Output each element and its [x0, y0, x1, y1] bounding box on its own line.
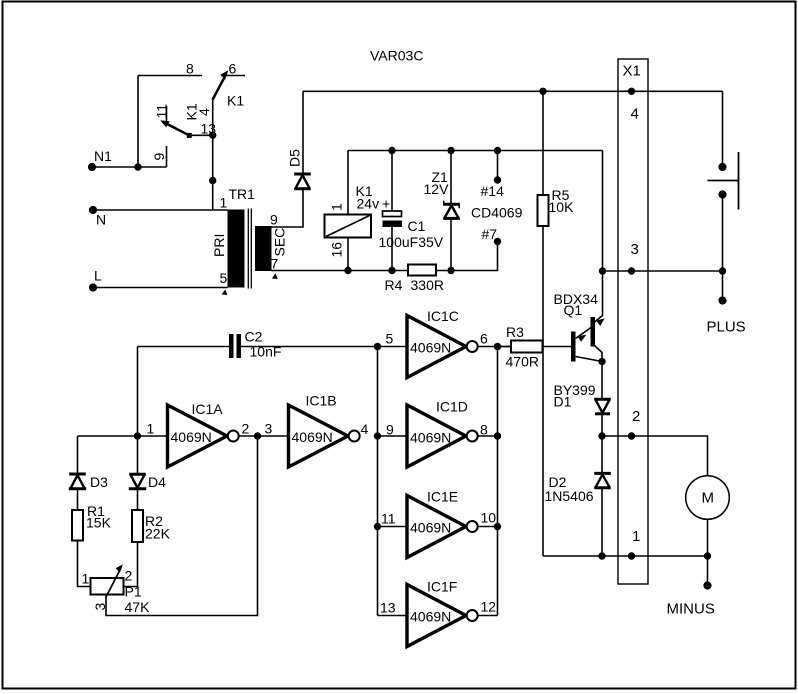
- svg-text:12: 12: [481, 599, 497, 615]
- svg-text:2: 2: [125, 568, 133, 584]
- svg-text:#7: #7: [482, 226, 498, 242]
- svg-text:13: 13: [201, 121, 217, 137]
- svg-text:100uF35V: 100uF35V: [379, 234, 444, 250]
- svg-text:3: 3: [92, 603, 108, 611]
- svg-text:L: L: [94, 268, 102, 284]
- svg-text:PLUS: PLUS: [707, 319, 746, 336]
- svg-text:6: 6: [229, 61, 237, 77]
- svg-text:10K: 10K: [549, 199, 575, 215]
- svg-text:16: 16: [329, 242, 345, 258]
- svg-text:IC1F: IC1F: [427, 579, 457, 595]
- svg-text:N1: N1: [94, 148, 112, 164]
- svg-text:11: 11: [154, 104, 170, 119]
- svg-text:1: 1: [147, 421, 155, 437]
- svg-text:D4: D4: [148, 474, 166, 490]
- svg-text:3: 3: [631, 241, 639, 258]
- svg-text:2: 2: [242, 421, 250, 437]
- svg-text:8: 8: [480, 422, 488, 438]
- svg-text:MINUS: MINUS: [667, 601, 715, 618]
- svg-text:P1: P1: [125, 584, 142, 600]
- svg-text:X1: X1: [623, 63, 641, 80]
- svg-text:12V: 12V: [424, 181, 450, 197]
- svg-text:330R: 330R: [411, 277, 444, 293]
- svg-text:2: 2: [632, 408, 640, 425]
- svg-text:9: 9: [151, 153, 167, 161]
- svg-text:SEC: SEC: [272, 228, 288, 257]
- svg-text:4069N: 4069N: [292, 429, 333, 445]
- svg-text:D5: D5: [287, 149, 303, 167]
- svg-text:5: 5: [220, 270, 228, 286]
- svg-text:24v: 24v: [357, 196, 380, 212]
- svg-text:+: +: [382, 196, 390, 212]
- svg-text:11: 11: [381, 511, 396, 527]
- svg-text:IC1D: IC1D: [436, 399, 468, 415]
- svg-text:M: M: [702, 490, 715, 507]
- svg-text:IC1C: IC1C: [427, 308, 459, 324]
- svg-text:VAR03C: VAR03C: [370, 48, 423, 64]
- svg-text:IC1E: IC1E: [427, 489, 458, 505]
- svg-text:1: 1: [329, 203, 345, 211]
- svg-text:R3: R3: [506, 324, 524, 340]
- svg-text:D1: D1: [554, 394, 572, 410]
- svg-text:TR1: TR1: [229, 186, 256, 202]
- svg-text:IC1B: IC1B: [306, 393, 337, 409]
- svg-text:4069N: 4069N: [410, 430, 451, 446]
- svg-text:1: 1: [220, 195, 228, 211]
- svg-text:N: N: [96, 212, 106, 228]
- svg-text:5: 5: [386, 331, 394, 347]
- svg-text:C1: C1: [408, 218, 426, 234]
- svg-text:15K: 15K: [86, 515, 112, 531]
- svg-text:10nF: 10nF: [250, 344, 282, 360]
- svg-text:22K: 22K: [145, 526, 171, 542]
- svg-text:C2: C2: [245, 329, 263, 345]
- svg-text:13: 13: [380, 600, 396, 616]
- svg-text:PRI: PRI: [211, 234, 227, 257]
- svg-text:3: 3: [265, 421, 273, 437]
- svg-text:4069N: 4069N: [410, 609, 451, 625]
- svg-text:7: 7: [271, 256, 279, 272]
- svg-text:10: 10: [481, 510, 497, 526]
- svg-text:Q1: Q1: [564, 302, 583, 318]
- svg-text:4: 4: [361, 421, 369, 437]
- svg-text:CD4069: CD4069: [471, 205, 523, 221]
- svg-text:#14: #14: [481, 183, 505, 199]
- svg-text:4069N: 4069N: [410, 520, 451, 536]
- svg-text:4069N: 4069N: [410, 340, 451, 356]
- svg-text:9: 9: [386, 422, 394, 438]
- svg-text:470R: 470R: [506, 354, 539, 370]
- svg-text:4: 4: [196, 108, 212, 116]
- svg-text:47K: 47K: [125, 599, 151, 615]
- svg-text:R4: R4: [385, 277, 403, 293]
- svg-text:IC1A: IC1A: [192, 401, 224, 417]
- svg-text:4: 4: [631, 106, 639, 123]
- svg-text:1: 1: [82, 571, 90, 587]
- svg-text:1N5406: 1N5406: [545, 488, 594, 504]
- svg-text:9: 9: [270, 212, 278, 228]
- svg-text:D3: D3: [90, 474, 108, 490]
- svg-text:8: 8: [186, 61, 194, 77]
- svg-text:1: 1: [632, 528, 640, 545]
- svg-text:6: 6: [480, 331, 488, 347]
- svg-text:K1: K1: [227, 93, 244, 109]
- svg-text:4069N: 4069N: [171, 429, 212, 445]
